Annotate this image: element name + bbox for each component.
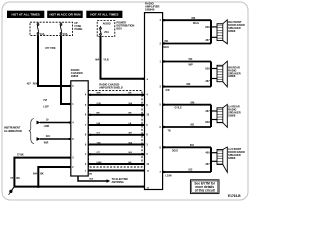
svg-text:828: 828 [205, 26, 210, 29]
svg-text:HOT AT ALL TIMES: HOT AT ALL TIMES [90, 13, 118, 17]
svg-text:Y/LB: Y/LB [103, 58, 109, 61]
svg-text:DB: DB [89, 174, 93, 176]
svg-text:287: 287 [205, 110, 210, 113]
svg-text:828: 828 [205, 68, 210, 71]
svg-text:LB: LB [129, 123, 132, 125]
svg-text:LB/R: LB/R [44, 126, 50, 128]
svg-text:O/Y: O/Y [97, 133, 101, 135]
svg-text:ILLUMINATION: ILLUMINATION [4, 130, 22, 133]
svg-text:BK: BK [40, 172, 44, 175]
svg-text:HOT AT ALL TIMES: HOT AT ALL TIMES [12, 13, 40, 17]
svg-text:PANEL: PANEL [75, 28, 84, 31]
svg-text:18808: 18808 [228, 29, 236, 33]
svg-text:AUDIO: AUDIO [103, 23, 111, 26]
svg-text:GY/LG: GY/LG [175, 108, 182, 110]
svg-text:10A: 10A [40, 33, 45, 36]
svg-text:18808: 18808 [228, 156, 236, 160]
svg-text:O/W: O/W [97, 103, 101, 105]
svg-text:457: 457 [27, 83, 32, 86]
svg-text:DG/O: DG/O [163, 47, 169, 49]
svg-text:O/R: O/R [166, 90, 170, 92]
svg-text:BK: BK [16, 177, 20, 180]
svg-text:18B849: 18B849 [145, 7, 155, 11]
svg-text:694: 694 [95, 58, 100, 61]
svg-text:409: 409 [205, 152, 210, 155]
svg-text:R/W: R/W [33, 83, 38, 86]
svg-text:694: 694 [33, 172, 38, 175]
svg-text:HOT IN ACC OR RUN: HOT IN ACC OR RUN [49, 13, 81, 17]
svg-text:U/B: U/B [97, 123, 101, 125]
svg-text:W/R: W/R [97, 93, 102, 95]
svg-text:TN: TN [168, 130, 171, 132]
svg-text:18808: 18808 [228, 74, 236, 78]
svg-text:BK: BK [129, 162, 133, 164]
svg-text:LG/W: LG/W [166, 175, 173, 177]
svg-text:BK: BK [129, 93, 133, 95]
svg-text:W/P: W/P [189, 65, 194, 67]
svg-text:BK: BK [129, 113, 133, 115]
svg-text:of this circuit: of this circuit [195, 188, 216, 192]
svg-text:W/LG: W/LG [193, 23, 199, 25]
svg-text:LG/P: LG/P [43, 107, 49, 109]
svg-text:BR: BR [97, 113, 101, 115]
svg-text:828: 828 [205, 121, 210, 124]
svg-text:E1763-B: E1763-B [228, 194, 241, 198]
svg-text:DG/O: DG/O [172, 150, 178, 152]
svg-text:25A: 25A [104, 31, 109, 34]
svg-text:287: 287 [205, 163, 210, 166]
svg-text:287: 287 [205, 39, 210, 42]
svg-text:18806: 18806 [71, 74, 79, 78]
svg-text:INSTRUMENT: INSTRUMENT [4, 127, 21, 130]
svg-text:57 BK: 57 BK [17, 153, 24, 156]
svg-text:BOX: BOX [117, 27, 123, 30]
svg-text:AMPLIFIER SHIELD: AMPLIFIER SHIELD [99, 87, 123, 90]
svg-text:W/R: W/R [44, 142, 49, 144]
svg-text:977 Y/BK: 977 Y/BK [45, 47, 56, 50]
svg-text:15A: 15A [63, 33, 68, 36]
svg-text:Y/W: Y/W [97, 142, 101, 144]
svg-text:ANTENNA: ANTENNA [112, 181, 124, 184]
svg-text:287: 287 [205, 80, 210, 83]
svg-text:U/BK: U/BK [97, 162, 103, 164]
svg-text:18808: 18808 [228, 113, 236, 117]
